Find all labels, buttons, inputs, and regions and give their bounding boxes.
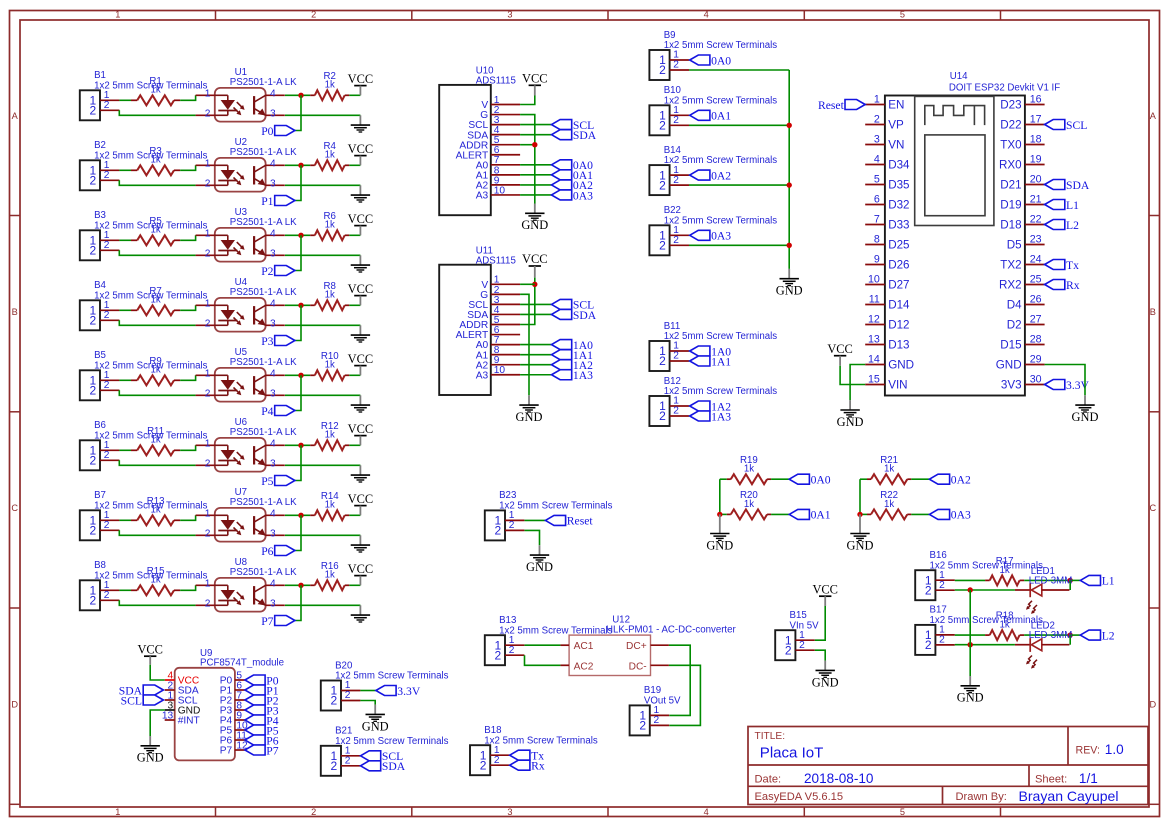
screw terminal B12 [649, 376, 777, 426]
svg-text:Date:: Date: [755, 774, 782, 786]
svg-text:A3: A3 [476, 370, 489, 381]
wire [180, 445, 195, 450]
net flag Tx [1045, 259, 1080, 272]
screw terminal B23 [485, 490, 613, 540]
svg-text:26: 26 [1030, 293, 1042, 305]
wire [180, 305, 195, 310]
net flag SDA [1045, 179, 1090, 192]
svg-text:14: 14 [868, 353, 880, 365]
svg-text:1: 1 [205, 229, 211, 240]
svg-text:7: 7 [874, 213, 880, 225]
svg-text:4: 4 [270, 509, 276, 520]
svg-text:2: 2 [104, 170, 110, 181]
wire [119, 250, 195, 255]
resistor R16 [310, 561, 349, 590]
svg-text:3: 3 [507, 807, 512, 817]
resistor R9 [131, 356, 180, 385]
LED LED1 [1015, 566, 1072, 614]
wire [520, 278, 535, 325]
wire [520, 96, 535, 105]
svg-text:2: 2 [939, 580, 945, 591]
resistor R5 [131, 216, 180, 245]
net flag 0A3 [552, 189, 594, 202]
wire [520, 124, 551, 126]
screw terminal B4 [80, 280, 208, 330]
net flag SDA [361, 760, 406, 773]
svg-text:4: 4 [270, 299, 276, 310]
opto-coupler U7 [196, 487, 298, 542]
svg-text:1k: 1k [325, 290, 335, 301]
ground [351, 255, 370, 272]
screw terminal B7 [80, 490, 208, 540]
svg-text:2: 2 [494, 755, 500, 766]
wire [520, 344, 551, 346]
svg-text:1k: 1k [150, 575, 160, 586]
svg-text:17: 17 [1030, 113, 1042, 125]
wire [525, 655, 561, 665]
svg-text:19: 19 [1030, 153, 1042, 165]
svg-text:3.3V: 3.3V [397, 685, 421, 698]
opto-coupler U8 [196, 557, 298, 612]
wire [520, 115, 535, 204]
svg-text:PS2501-1-A LK: PS2501-1-A LK [230, 497, 297, 508]
ground [837, 400, 864, 429]
svg-text:1x2 5mm Screw Terminals: 1x2 5mm Screw Terminals [664, 215, 778, 226]
wire [815, 650, 825, 660]
wire [520, 303, 551, 305]
resistor R12 [310, 421, 349, 450]
net flag SCL [121, 694, 164, 707]
wire [285, 394, 360, 396]
svg-text:2: 2 [90, 244, 97, 258]
svg-text:DOIT ESP32 Devkit V1 IF: DOIT ESP32 Devkit V1 IF [949, 82, 1060, 93]
svg-text:5: 5 [874, 173, 880, 185]
VCC power symbol [348, 282, 374, 306]
wire [285, 534, 360, 536]
ADC U11 ADS1115 [439, 245, 520, 395]
svg-text:PS2501-1-A LK: PS2501-1-A LK [230, 77, 297, 88]
svg-text:30: 30 [1030, 373, 1042, 385]
svg-text:L1: L1 [1102, 575, 1115, 588]
svg-text:D32: D32 [888, 199, 909, 212]
net flag SCL [552, 119, 595, 132]
svg-text:4: 4 [704, 10, 709, 20]
screw terminal B1 [80, 70, 208, 120]
net flag P0 [261, 125, 295, 138]
svg-text:P7: P7 [220, 746, 233, 757]
wire [295, 95, 301, 130]
wire [119, 180, 195, 185]
svg-text:15: 15 [868, 373, 880, 385]
svg-text:2: 2 [925, 583, 932, 597]
resistor R11 [131, 426, 180, 455]
resistor R20 [727, 490, 771, 519]
svg-text:VCC: VCC [348, 72, 374, 86]
net flag 3.3V [376, 685, 421, 698]
junction [298, 233, 303, 238]
net flag L1 [1045, 199, 1080, 212]
svg-text:1k: 1k [884, 464, 894, 475]
wire [349, 584, 360, 586]
svg-text:2: 2 [90, 314, 97, 328]
ground [351, 605, 370, 622]
svg-text:5: 5 [900, 10, 905, 20]
svg-text:1: 1 [205, 579, 211, 590]
wire [520, 313, 551, 315]
junction [532, 142, 537, 147]
svg-text:3V3: 3V3 [1001, 379, 1022, 392]
wire [509, 764, 511, 766]
svg-text:1k: 1k [1000, 620, 1010, 631]
VCC power symbol [812, 583, 838, 607]
svg-text:2: 2 [799, 640, 805, 651]
svg-text:3: 3 [270, 179, 276, 190]
wire [295, 165, 301, 200]
LED LED2 [1015, 621, 1072, 669]
svg-text:Rx: Rx [531, 760, 545, 773]
wire [688, 405, 691, 407]
svg-text:2: 2 [205, 109, 211, 120]
net flag P1 [245, 684, 279, 697]
svg-text:2: 2 [205, 319, 211, 330]
svg-text:1x2 5mm Screw Terminals: 1x2 5mm Screw Terminals [930, 615, 1044, 626]
VCC power symbol [348, 72, 374, 96]
resistor R18 [985, 611, 1024, 640]
wire [520, 283, 535, 285]
svg-text:2: 2 [104, 310, 110, 321]
svg-text:4: 4 [270, 579, 276, 590]
junction [298, 443, 303, 448]
svg-text:D26: D26 [888, 259, 909, 272]
junction [717, 512, 722, 517]
net flag 3.3V [1045, 379, 1090, 392]
wire [669, 645, 690, 715]
svg-text:D13: D13 [888, 339, 909, 352]
screw terminal B18 [470, 725, 598, 775]
svg-text:1k: 1k [150, 365, 160, 376]
svg-text:2: 2 [659, 239, 666, 253]
VCC power symbol [348, 422, 374, 446]
svg-text:VCC: VCC [348, 562, 374, 576]
net flag SCL [361, 750, 404, 763]
svg-text:1x2 5mm Screw Terminals: 1x2 5mm Screw Terminals [930, 560, 1044, 571]
wire [840, 366, 865, 385]
svg-text:1: 1 [115, 10, 120, 20]
svg-text:21: 21 [1030, 193, 1042, 205]
VCC power symbol [348, 352, 374, 376]
svg-text:3: 3 [507, 10, 512, 20]
svg-text:1: 1 [205, 299, 211, 310]
svg-text:10: 10 [494, 185, 506, 196]
screw terminal B19 [630, 685, 681, 735]
wire [360, 701, 375, 705]
resistor R4 [310, 141, 349, 170]
resistor R17 [985, 556, 1024, 585]
opto-coupler U5 [196, 347, 298, 402]
wire [285, 604, 360, 606]
svg-text:Brayan Cayupel: Brayan Cayupel [1019, 788, 1119, 804]
svg-text:GND: GND [837, 415, 864, 429]
svg-text:1: 1 [205, 89, 211, 100]
junction [787, 243, 792, 248]
wire [1045, 365, 1085, 396]
svg-text:2: 2 [90, 384, 97, 398]
junction [298, 373, 303, 378]
svg-text:1k: 1k [150, 505, 160, 516]
svg-text:LED-3MM: LED-3MM [1029, 575, 1073, 586]
net flag 0A0 [690, 54, 732, 67]
svg-text:2: 2 [205, 249, 211, 260]
svg-text:1k: 1k [744, 464, 754, 475]
svg-text:20: 20 [1030, 173, 1042, 185]
svg-text:4: 4 [270, 439, 276, 450]
svg-text:VP: VP [888, 119, 904, 132]
svg-text:10: 10 [494, 365, 506, 376]
net flag SDA [552, 129, 597, 142]
svg-text:AC2: AC2 [574, 661, 594, 672]
svg-text:4: 4 [270, 369, 276, 380]
svg-text:1k: 1k [325, 570, 335, 581]
svg-text:D12: D12 [888, 319, 909, 332]
net flag P6 [261, 545, 295, 558]
VCC power symbol [348, 212, 374, 236]
resistor R6 [310, 211, 349, 240]
screw terminal B2 [80, 140, 208, 190]
svg-text:2: 2 [331, 759, 338, 773]
svg-text:2: 2 [673, 351, 679, 362]
wire [689, 124, 789, 126]
svg-text:1/1: 1/1 [1079, 771, 1098, 786]
svg-text:SDA: SDA [1066, 179, 1090, 192]
wire [119, 110, 195, 115]
svg-text:3: 3 [270, 599, 276, 610]
svg-text:D15: D15 [1000, 339, 1021, 352]
svg-text:1x2 5mm Screw Terminals: 1x2 5mm Screw Terminals [664, 155, 778, 166]
svg-text:24: 24 [1030, 253, 1042, 265]
wire [285, 114, 360, 116]
resistor R10 [310, 351, 349, 380]
junction [298, 303, 303, 308]
wire [119, 239, 131, 241]
net flag 1A1 [690, 355, 732, 368]
svg-text:1k: 1k [150, 295, 160, 306]
svg-text:2: 2 [205, 529, 211, 540]
wire [295, 445, 301, 480]
wire [180, 375, 195, 380]
svg-text:2: 2 [673, 115, 679, 126]
wire [688, 415, 691, 417]
screw terminal B17 [915, 605, 1043, 655]
svg-text:Rx: Rx [1066, 279, 1080, 292]
net flag P7 [245, 744, 279, 757]
svg-text:VCC: VCC [348, 422, 374, 436]
opto-coupler U6 [196, 417, 298, 472]
svg-text:Sheet:: Sheet: [1035, 774, 1067, 786]
svg-text:VCC: VCC [812, 583, 838, 597]
svg-text:2: 2 [90, 594, 97, 608]
svg-text:P1: P1 [261, 195, 273, 208]
svg-text:23: 23 [1030, 233, 1042, 245]
wire [955, 579, 985, 581]
wire [360, 690, 376, 692]
svg-text:PS2501-1-A LK: PS2501-1-A LK [230, 357, 297, 368]
wire [520, 164, 551, 166]
net flag P2 [245, 694, 279, 707]
svg-text:PS2501-1-A LK: PS2501-1-A LK [230, 427, 297, 438]
resistor R13 [131, 496, 180, 525]
resistor R7 [131, 286, 180, 315]
svg-text:1.0: 1.0 [1105, 742, 1124, 757]
wire [955, 589, 1015, 591]
VCC power symbol [522, 252, 548, 277]
net flag 1A1 [552, 349, 594, 362]
svg-text:1: 1 [205, 369, 211, 380]
net flag Tx [510, 750, 545, 763]
wire [860, 513, 867, 515]
resistor R8 [310, 281, 349, 310]
wire [349, 234, 360, 236]
svg-text:D: D [1149, 699, 1156, 709]
ground [351, 395, 370, 412]
svg-text:10: 10 [868, 273, 880, 285]
wire [119, 600, 195, 605]
svg-text:2: 2 [345, 690, 351, 701]
wire [955, 634, 985, 636]
svg-text:22: 22 [1030, 213, 1042, 225]
screw terminal B6 [80, 420, 208, 470]
net flag P6 [245, 734, 279, 747]
svg-text:2: 2 [104, 380, 110, 391]
net flag 0A3 [690, 230, 732, 243]
wire [359, 765, 361, 767]
svg-text:D21: D21 [1000, 179, 1021, 192]
svg-text:1k: 1k [325, 430, 335, 441]
wire [180, 95, 195, 100]
svg-text:2: 2 [205, 389, 211, 400]
net flag P3 [261, 335, 295, 348]
svg-text:TITLE:: TITLE: [755, 731, 786, 742]
wire [180, 515, 195, 520]
svg-text:1x2 5mm Screw Terminals: 1x2 5mm Screw Terminals [484, 735, 598, 746]
wire [525, 644, 561, 646]
net flag 1A0 [690, 345, 732, 358]
wire [285, 464, 360, 466]
wire [349, 304, 360, 306]
svg-text:P5: P5 [261, 475, 273, 488]
svg-text:3.3V: 3.3V [1066, 379, 1090, 392]
svg-text:2: 2 [205, 179, 211, 190]
svg-text:1x2 5mm Screw Terminals: 1x2 5mm Screw Terminals [335, 736, 449, 747]
svg-text:Reset: Reset [818, 99, 845, 112]
svg-text:GND: GND [526, 560, 553, 574]
svg-text:D33: D33 [888, 219, 909, 232]
wire [119, 460, 195, 465]
svg-text:VIN: VIN [888, 379, 907, 392]
svg-text:VCC: VCC [348, 352, 374, 366]
svg-text:9: 9 [874, 253, 880, 265]
wire [180, 585, 195, 590]
svg-text:D22: D22 [1000, 119, 1021, 132]
svg-text:0A1: 0A1 [811, 509, 831, 522]
net flag P5 [261, 475, 295, 488]
VCC power symbol [522, 72, 548, 96]
svg-text:2: 2 [331, 694, 338, 708]
net flag SDA [119, 684, 164, 697]
wire [150, 665, 165, 680]
net flag 1A2 [552, 359, 594, 372]
junction [298, 163, 303, 168]
junction [857, 512, 862, 517]
ground [812, 661, 839, 690]
wire [285, 254, 360, 256]
svg-text:P4: P4 [261, 405, 273, 418]
svg-text:2: 2 [104, 100, 110, 111]
opto-coupler U1 [196, 67, 298, 122]
svg-text:VCC: VCC [827, 342, 853, 356]
svg-text:1k: 1k [325, 500, 335, 511]
wire [295, 235, 301, 270]
wire [860, 478, 867, 480]
wire [285, 374, 310, 376]
svg-text:3: 3 [270, 529, 276, 540]
svg-text:8: 8 [874, 233, 880, 245]
svg-text:P2: P2 [261, 265, 273, 278]
svg-text:2: 2 [495, 524, 502, 538]
title block [748, 727, 1148, 805]
wire [150, 710, 165, 736]
wire [688, 174, 691, 176]
svg-text:1: 1 [874, 93, 880, 105]
wire [295, 305, 301, 340]
screw terminal B21 [321, 726, 449, 776]
svg-text:1: 1 [115, 807, 120, 817]
svg-text:SCL: SCL [121, 694, 142, 707]
junction [532, 282, 537, 287]
svg-text:GND: GND [521, 218, 548, 232]
svg-text:Reset: Reset [567, 515, 594, 528]
svg-text:1: 1 [205, 509, 211, 520]
svg-text:2: 2 [673, 60, 679, 71]
wire [689, 184, 789, 186]
net flag SCL [1045, 119, 1088, 132]
screw terminal B20 [321, 660, 449, 710]
wire GND bus of B9 group [788, 70, 790, 269]
resistor R1 [131, 76, 180, 105]
AC-DC converter U12 HLK-PM01 [560, 615, 736, 676]
ground [351, 535, 370, 552]
net flag P3 [245, 704, 279, 717]
svg-text:1x2 5mm Screw Terminals: 1x2 5mm Screw Terminals [664, 95, 778, 106]
wire [285, 304, 310, 306]
svg-text:D: D [11, 699, 18, 709]
wire [815, 606, 825, 640]
svg-text:2: 2 [785, 643, 792, 657]
svg-text:AC1: AC1 [574, 641, 594, 652]
wire [509, 754, 511, 756]
resistor R2 [310, 71, 349, 100]
svg-text:D5: D5 [1007, 239, 1022, 252]
svg-text:1k: 1k [884, 499, 894, 510]
resistor R19 [727, 455, 771, 484]
svg-text:REV:: REV: [1076, 745, 1100, 757]
svg-text:GND: GND [776, 284, 803, 298]
svg-text:2: 2 [939, 635, 945, 646]
svg-text:1k: 1k [744, 499, 754, 510]
svg-text:#INT: #INT [178, 716, 200, 727]
net flag P7 [261, 615, 295, 628]
svg-text:TX0: TX0 [1000, 139, 1022, 152]
wire [119, 379, 131, 381]
